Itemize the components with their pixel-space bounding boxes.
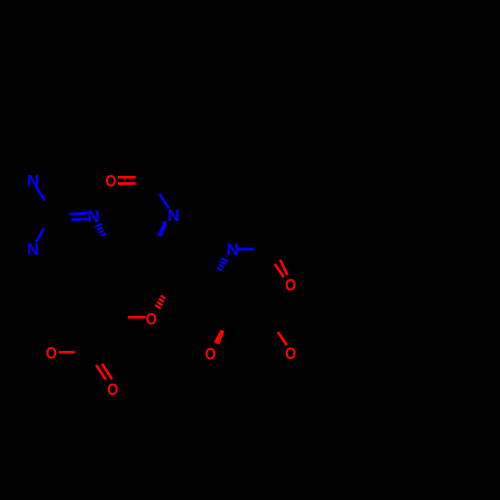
svg-text:N: N (167, 206, 179, 225)
wire red solid wedge to O (214, 330, 225, 345)
svg-text:O: O (105, 172, 116, 191)
wire O=C double bond (red halves) (118, 176, 136, 179)
svg-text:N: N (27, 240, 39, 259)
svg-text:N: N (226, 240, 238, 259)
svg-text:O: O (146, 310, 157, 329)
wire N4-C half-bond (238, 248, 255, 251)
svg-text:O: O (285, 275, 296, 294)
wire N solid wedge (blue) (157, 221, 167, 237)
svg-text:O: O (46, 344, 57, 363)
wire ester O-C half-bond (59, 351, 75, 354)
wire C=N3 double bond (blue halves) (69, 213, 87, 214)
wire amide C=O double bond (red halves) (275, 264, 284, 277)
wire N4 hashed wedge (blue dashes) (221, 258, 228, 261)
wire C-O half-bond (right OH) (278, 332, 287, 345)
svg-text:O: O (107, 380, 118, 399)
svg-text:O: O (285, 344, 296, 363)
svg-text:O: O (205, 345, 216, 364)
wire N1-C half-bond (36, 187, 45, 201)
svg-text:N: N (87, 207, 99, 226)
wire ring O to CH2 half-bond (128, 316, 146, 319)
wire ester C=O double bond (red halves) (96, 365, 106, 380)
wire formyl C-N half-bond (159, 193, 168, 208)
wire N2-C half-bond (36, 229, 44, 243)
wire ring O hashed wedge (red dashes) (161, 295, 165, 298)
wire N3 hashed wedge (blue dashes) (95, 224, 102, 227)
